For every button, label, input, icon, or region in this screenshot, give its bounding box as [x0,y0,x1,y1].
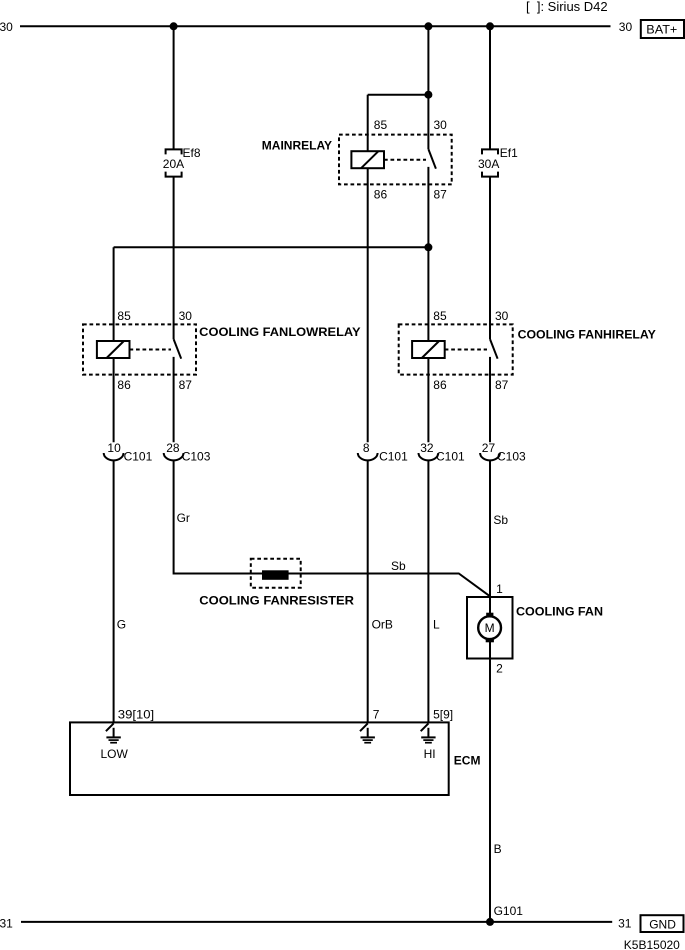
motor M1 body [478,616,501,639]
svg-text:86: 86 [117,378,131,392]
ground ECM low driver [106,723,121,742]
wire main relay 87 to hi relay coil [427,167,429,341]
svg-text:Gr: Gr [177,511,190,525]
svg-text:30: 30 [179,309,193,323]
connector 28 C103 [164,453,184,460]
wire hi relay 86 to connector 32 [427,358,429,442]
wire Ef1 to hi relay pin 30 [489,177,491,340]
svg-text:8: 8 [363,441,370,455]
wire Ef1 feed from rail [489,26,491,149]
svg-text:32: 32 [420,441,434,455]
relay U1 coil [351,151,384,168]
wire top rail 30 [20,25,611,27]
relay K2 coil [412,341,445,358]
svg-text:30: 30 [495,309,509,323]
svg-text:COOLING FAN: COOLING FAN [516,605,603,619]
wire Ef8 feed from rail [173,26,175,149]
svg-text:85: 85 [374,118,388,132]
svg-text:C103: C103 [497,449,526,463]
relay K1 COOLING FANLOWRELAY box [83,324,196,374]
ground ECM hi driver [421,723,436,742]
svg-text:27: 27 [482,441,496,455]
svg-text:7: 7 [373,707,380,721]
wire Ef8 to low relay pin 30 [173,177,175,340]
relay U1 actuator dashed link [384,159,426,161]
resistor element [262,570,289,580]
svg-text:31: 31 [618,917,632,931]
wire main relay 86 to connector 8 [367,168,369,442]
ECM box [70,722,449,795]
svg-text:31: 31 [0,917,13,931]
connector 27 C103 [480,453,500,460]
svg-text:30: 30 [434,118,448,132]
terminal GND box [641,915,684,932]
wire main relay switch feed from rail [427,26,429,149]
wire OrB from connector 8 to ECM pin 7 [367,461,369,724]
svg-text:C101: C101 [436,449,465,463]
svg-text:HI: HI [424,747,436,761]
svg-text:85: 85 [117,309,131,323]
svg-text:85: 85 [433,309,447,323]
wire low relay 86 to connector 10 [113,358,115,442]
relay K2 COOLING FANHIRELAY box [399,324,513,374]
ground ECM pin7 driver [360,723,375,742]
relay U1 MAINRELAY box [339,135,452,185]
svg-text:2: 2 [496,662,503,676]
connector 10 C101 [104,453,124,460]
wire L from connector 32 to ECM pin 5 [427,461,429,724]
svg-text:C101: C101 [379,449,408,463]
svg-text:1: 1 [496,582,503,596]
svg-text:COOLING FANHIRELAY: COOLING FANHIRELAY [518,327,656,341]
relay K1 coil [97,341,130,358]
connector 32 C101 [419,453,439,460]
resistor COOLING FANRESISTER box [251,559,301,588]
svg-text:B: B [494,842,502,856]
relay K2 actuator dashed link [445,349,487,351]
svg-text:Sb: Sb [493,513,508,527]
node relay power junction [424,243,432,251]
svg-text:L: L [433,618,440,632]
motor M1 COOLING FAN box [467,597,513,659]
relay K2 switch blade [490,339,498,359]
svg-text:OrB: OrB [372,618,393,632]
node rail-main relay junction [424,22,432,30]
node G101 junction [486,918,494,926]
svg-text:20A: 20A [163,157,184,171]
svg-text:39[10]: 39[10] [118,707,154,721]
svg-text:COOLING FANRESISTER: COOLING FANRESISTER [199,594,354,608]
wire G from connector 10 to ECM pin 39 [113,461,115,724]
relay U1 switch blade [428,149,436,169]
svg-text:30: 30 [619,20,633,34]
svg-text:30A: 30A [478,157,499,171]
svg-text:87: 87 [179,378,193,392]
svg-text:86: 86 [374,188,388,202]
wire main relay coil feed [368,94,429,96]
svg-text:86: 86 [433,378,447,392]
svg-text:30: 30 [0,20,13,34]
svg-text:G: G [117,618,126,632]
wire low relay 87 to connector 28 [173,357,175,442]
svg-text:C101: C101 [124,449,153,463]
svg-text:COOLING FANLOWRELAY: COOLING FANLOWRELAY [199,325,360,339]
terminal BAT+ box [641,20,684,38]
svg-text:BAT+: BAT+ [646,23,677,37]
relay K1 actuator dashed link [130,349,172,351]
node rail-Ef1 junction [486,22,494,30]
wire low relay coil drop [113,247,115,341]
fuse Ef8 [166,149,182,176]
node rail-Ef8 junction [170,22,178,30]
connector 8 C101 [358,453,378,460]
wire Sb to cooling fan and B to ground rail [489,461,491,922]
svg-text:28: 28 [166,441,180,455]
wire bottom rail 31 [21,921,612,923]
svg-text:Sb: Sb [391,559,406,573]
svg-text:87: 87 [495,378,509,392]
svg-text:[ ]: Sirius D42: [ ]: Sirius D42 [526,0,608,14]
svg-text:GND: GND [649,917,676,931]
svg-text:G101: G101 [494,904,524,918]
svg-text:C103: C103 [182,449,211,463]
svg-text:M: M [485,621,495,635]
svg-text:5[9]: 5[9] [433,707,453,721]
relay K1 switch blade [174,339,182,359]
svg-text:ECM: ECM [454,753,481,767]
motor M1 brush top [486,613,493,618]
node main relay coil feed junction [424,91,432,99]
fuse Ef1 [482,149,498,176]
wire Gr from connector 28 to resistor then Sb to fan pin 1 [174,461,490,596]
svg-text:10: 10 [107,441,121,455]
motor M1 brush bottom [486,638,494,642]
svg-text:87: 87 [434,188,448,202]
svg-text:K5B15020: K5B15020 [624,938,680,950]
svg-text:Ef8: Ef8 [183,146,201,160]
svg-text:Ef1: Ef1 [500,146,518,160]
wire relay coil power line [114,246,429,248]
wire hi relay 87 to connector 27 [489,357,491,442]
svg-text:LOW: LOW [101,747,129,761]
wire main relay coil drop [367,95,369,152]
svg-text:MAINRELAY: MAINRELAY [262,138,332,152]
